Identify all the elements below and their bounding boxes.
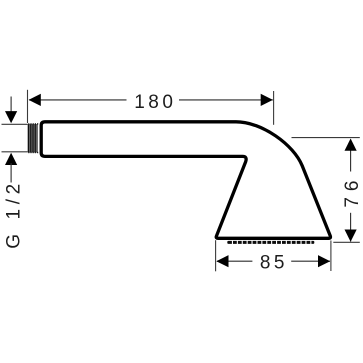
dimension G 1/2: bottom extension line bbox=[2, 151, 28, 153]
dimension 180: right extension line bbox=[273, 91, 275, 125]
dimension 180: line right segment bbox=[179, 99, 273, 101]
dimension G 1/2: bottom arrow (pointing up) bbox=[5, 153, 17, 165]
dimension G 1/2: top arrow (pointing down) bbox=[5, 111, 17, 123]
svg-text:G 1/2: G 1/2 bbox=[3, 179, 24, 248]
svg-text:180: 180 bbox=[134, 92, 176, 113]
G1/2 thread connector bbox=[28, 123, 39, 153]
dimension G 1/2: top arrow stem bbox=[10, 97, 12, 116]
dimension 85: right arrow bbox=[318, 255, 330, 267]
dimension 76: top arrow (pointing up) bbox=[345, 139, 357, 151]
dimension 180: left extension line bbox=[27, 90, 29, 123]
dimension 180: left arrow bbox=[29, 94, 41, 106]
dimension 85: line right segment bbox=[291, 260, 330, 262]
svg-text:85: 85 bbox=[260, 253, 288, 274]
dimension 85: left extension line bbox=[215, 240, 217, 271]
dimension G 1/2: bottom arrow stem bbox=[10, 163, 12, 183]
dimension G 1/2: top extension line bbox=[2, 123, 28, 125]
dimension 76: line bottom segment bbox=[350, 213, 352, 242]
dimension 76: line top segment bbox=[350, 140, 352, 172]
svg-text:76: 76 bbox=[342, 175, 363, 208]
dimension 85: left arrow bbox=[216, 255, 228, 267]
dimension 180: right arrow bbox=[261, 94, 273, 106]
dimension 85: right extension line bbox=[330, 241, 332, 272]
dimension 76: top extension line bbox=[292, 137, 360, 139]
dimension 76: bottom extension line bbox=[333, 241, 360, 243]
hand shower outline (handle + head) bbox=[41, 122, 330, 239]
dimension 180: line left segment bbox=[29, 99, 127, 101]
spray face nozzles bbox=[227, 241, 314, 245]
dimension 85: line left segment bbox=[217, 260, 252, 262]
dimension 76: bottom arrow (pointing down) bbox=[345, 230, 357, 242]
